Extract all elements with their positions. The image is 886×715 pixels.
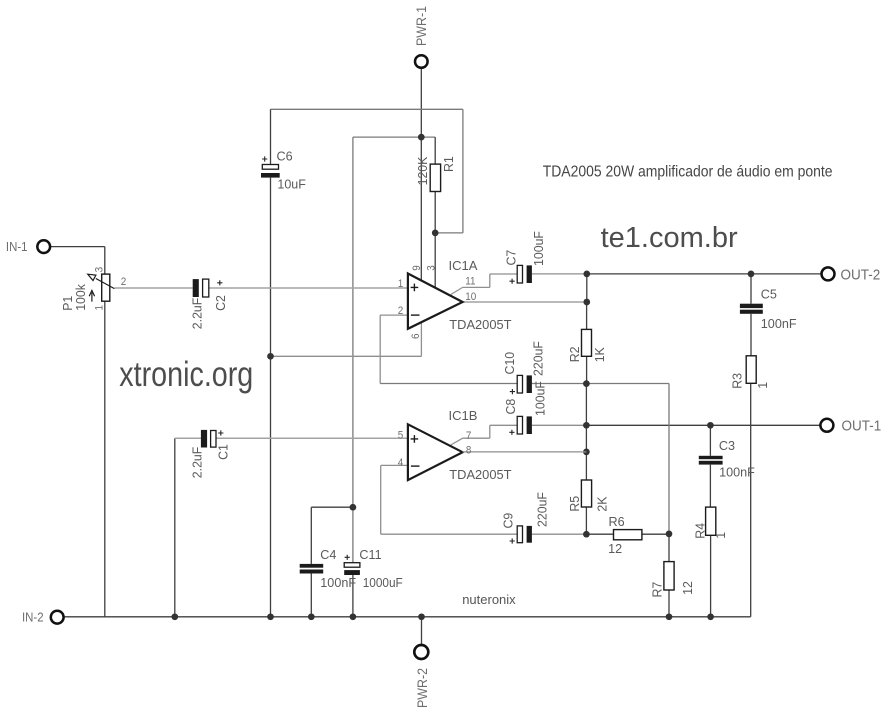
svg-text:220uF: 220uF: [531, 341, 545, 376]
svg-text:PWR-1: PWR-1: [414, 6, 430, 46]
svg-text:TDA2005T: TDA2005T: [449, 467, 511, 482]
svg-text:C10: C10: [503, 352, 517, 375]
svg-text:100k: 100k: [74, 283, 88, 310]
svg-text:100nF: 100nF: [761, 316, 797, 331]
svg-text:C11: C11: [359, 547, 381, 562]
svg-text:8: 8: [466, 445, 472, 457]
svg-text:C2: C2: [214, 295, 228, 311]
svg-text:1: 1: [714, 532, 728, 539]
svg-text:C6: C6: [277, 148, 293, 163]
svg-text:IN-1: IN-1: [6, 240, 28, 255]
svg-text:C4: C4: [320, 547, 336, 562]
svg-text:R4: R4: [693, 523, 707, 539]
svg-text:12: 12: [681, 581, 695, 595]
svg-text:R2: R2: [568, 347, 582, 363]
svg-text:R3: R3: [730, 373, 744, 389]
svg-text:220uF: 220uF: [535, 492, 549, 527]
svg-text:100uF: 100uF: [532, 231, 546, 266]
svg-text:C1: C1: [216, 444, 230, 460]
svg-text:IC1A: IC1A: [449, 258, 478, 273]
svg-text:1000uF: 1000uF: [363, 576, 403, 591]
svg-text:9: 9: [411, 265, 423, 271]
svg-text:100uF: 100uF: [533, 381, 547, 416]
svg-text:R1: R1: [442, 156, 456, 172]
svg-text:OUT-1: OUT-1: [842, 418, 882, 435]
svg-text:R6: R6: [609, 514, 625, 529]
svg-text:TDA2005T: TDA2005T: [449, 317, 511, 332]
svg-text:1: 1: [756, 382, 770, 389]
svg-text:1K: 1K: [593, 347, 607, 363]
svg-text:C9: C9: [501, 513, 515, 529]
svg-text:10uF: 10uF: [277, 176, 306, 191]
svg-text:100nF: 100nF: [320, 575, 356, 590]
svg-text:3: 3: [426, 265, 438, 271]
svg-text:TDA2005 20W amplificador de áu: TDA2005 20W amplificador de áudio em pon…: [543, 164, 833, 181]
svg-text:5: 5: [398, 430, 404, 442]
svg-text:C7: C7: [504, 250, 518, 266]
svg-text:C5: C5: [761, 286, 777, 301]
svg-text:nuteronix: nuteronix: [462, 592, 516, 607]
svg-text:12: 12: [608, 541, 622, 556]
svg-text:6: 6: [411, 333, 423, 339]
svg-text:2: 2: [398, 306, 404, 318]
svg-text:xtronic.org: xtronic.org: [119, 354, 253, 393]
svg-text:2.2uF: 2.2uF: [190, 446, 204, 478]
svg-text:3: 3: [94, 267, 106, 273]
svg-text:PWR-2: PWR-2: [415, 668, 431, 708]
svg-text:4: 4: [398, 458, 404, 470]
svg-text:R5: R5: [568, 496, 582, 512]
svg-text:IC1B: IC1B: [449, 408, 478, 423]
svg-text:R7: R7: [650, 582, 664, 598]
svg-text:1: 1: [398, 278, 404, 290]
svg-text:C8: C8: [504, 399, 518, 415]
svg-text:2K: 2K: [595, 496, 609, 512]
svg-text:120K: 120K: [416, 156, 430, 185]
svg-text:100nF: 100nF: [719, 464, 755, 479]
svg-text:C3: C3: [719, 438, 735, 453]
svg-text:te1.com.br: te1.com.br: [601, 222, 738, 254]
svg-text:7: 7: [466, 431, 472, 443]
svg-text:11: 11: [465, 276, 475, 288]
svg-text:10: 10: [465, 292, 476, 304]
svg-text:IN-2: IN-2: [22, 610, 44, 625]
svg-text:2.2uF: 2.2uF: [190, 297, 204, 329]
svg-text:OUT-2: OUT-2: [841, 267, 881, 284]
svg-text:2: 2: [121, 277, 127, 289]
svg-text:1: 1: [94, 305, 106, 311]
